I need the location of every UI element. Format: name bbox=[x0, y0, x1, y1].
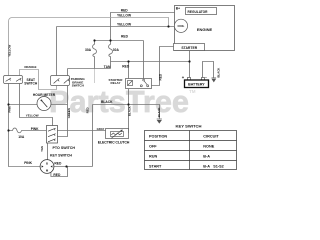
svg-text:ORANGE: ORANGE bbox=[24, 65, 36, 69]
wire PINK seat switch left pole down to key switch A bbox=[9, 84, 41, 167]
wire BLACK ground bus to ground symbol bbox=[93, 105, 160, 119]
svg-text:STARTER: STARTER bbox=[181, 46, 197, 50]
svg-text:START: START bbox=[149, 164, 162, 168]
svg-text:RED: RED bbox=[54, 162, 62, 166]
parking brake switch label bbox=[71, 77, 86, 87]
junction relay coil feed bbox=[127, 60, 129, 62]
svg-text:10A: 10A bbox=[18, 135, 25, 139]
junction yellow wires at coil bbox=[167, 25, 169, 27]
svg-text:POSITION: POSITION bbox=[149, 134, 167, 138]
ground chassis symbol at ground bus bbox=[157, 119, 162, 123]
svg-text:SWITCH: SWITCH bbox=[24, 82, 38, 86]
junction fuse F3 tap bbox=[7, 129, 9, 131]
wire hour meter taps bbox=[9, 104, 68, 106]
svg-text:RED: RED bbox=[121, 35, 129, 39]
svg-text:RUN: RUN bbox=[149, 154, 157, 158]
electric clutch L1 bbox=[106, 129, 129, 139]
svg-text:YELLOW: YELLOW bbox=[117, 22, 132, 26]
svg-text:TAN: TAN bbox=[40, 146, 44, 152]
svg-text:BLACK: BLACK bbox=[157, 108, 161, 118]
svg-text:OFF: OFF bbox=[149, 144, 157, 148]
starter relay K1 bbox=[126, 79, 152, 89]
svg-text:BATTERY: BATTERY bbox=[188, 83, 205, 87]
svg-text:30A: 30A bbox=[113, 48, 120, 52]
svg-text:YELLOW: YELLOW bbox=[26, 113, 39, 117]
svg-text:BLACK: BLACK bbox=[216, 68, 220, 78]
PTO switch S3 bbox=[47, 126, 58, 144]
wire starter relay coil feed drop bbox=[128, 62, 130, 79]
svg-text:PTO SWITCH: PTO SWITCH bbox=[53, 146, 76, 150]
wire RED key switch M loop bbox=[51, 167, 68, 177]
svg-text:B: B bbox=[46, 162, 48, 166]
wire RED key switch B to ground bus corner bbox=[54, 105, 93, 167]
svg-text:KEY SWITCH: KEY SWITCH bbox=[50, 154, 72, 158]
svg-text:RELAY: RELAY bbox=[111, 81, 121, 85]
junction fuse F1 top bbox=[93, 39, 95, 41]
svg-text:SWITCH: SWITCH bbox=[72, 83, 85, 87]
svg-text:RED: RED bbox=[122, 64, 130, 68]
wire RED fuse bus to starter relay contact bbox=[95, 41, 144, 79]
svg-text:B-A: B-A bbox=[203, 154, 210, 158]
svg-text:RED: RED bbox=[85, 107, 89, 113]
svg-text:TM: TM bbox=[189, 89, 196, 94]
wire RED fuse F2 to battery positive bbox=[111, 61, 190, 63]
svg-text:RED: RED bbox=[158, 73, 162, 80]
svg-text:TAN: TAN bbox=[104, 65, 111, 69]
fuse F3 10A with PINK wire to PTO switch bbox=[9, 128, 47, 133]
seat switch label bbox=[24, 78, 38, 86]
junction hour meter tap bbox=[7, 103, 9, 105]
svg-text:PINK: PINK bbox=[31, 127, 39, 131]
svg-text:RED: RED bbox=[53, 173, 61, 177]
wire GREEN parking brake switch to PTO switch bbox=[58, 86, 68, 137]
svg-text:NONE: NONE bbox=[203, 144, 214, 148]
wire RED from fuse bus up to engine B+ terminal bbox=[111, 13, 175, 41]
svg-text:CIRCUIT: CIRCUIT bbox=[203, 134, 219, 138]
wire BLACK electric clutch return drop bbox=[128, 105, 130, 134]
svg-text:ELECTRIC CLUTCH: ELECTRIC CLUTCH bbox=[98, 141, 130, 145]
wire BLACK battery negative to ground bbox=[203, 62, 214, 78]
wire YELLOW seat switch right pole to PTO switch top bbox=[20, 84, 53, 126]
svg-text:B+: B+ bbox=[176, 6, 180, 10]
svg-text:BLACK: BLACK bbox=[127, 106, 131, 116]
key switch S4 bbox=[40, 160, 54, 174]
watermark PartsTree logo bbox=[49, 84, 196, 119]
fuse F1 30A bbox=[93, 41, 97, 69]
svg-text:BLACK: BLACK bbox=[101, 100, 113, 104]
wire TAN PTO switch to key switch top bbox=[47, 143, 49, 160]
key switch table grid bbox=[145, 131, 237, 170]
seat switch S1 bbox=[4, 76, 23, 84]
ground chassis symbol at battery negative bbox=[212, 78, 217, 82]
engine outline box bbox=[175, 6, 235, 51]
svg-text:REGULATOR: REGULATOR bbox=[188, 10, 209, 14]
wire YELLOW lower run to engine coil bbox=[57, 26, 175, 28]
wire YELLOW left riser and top run to coil junction bbox=[9, 18, 169, 76]
regulator U1 bbox=[186, 8, 217, 15]
svg-text:30A: 30A bbox=[85, 48, 92, 52]
wire RED starter S terminal to relay contact bbox=[152, 47, 174, 86]
svg-text:PINK: PINK bbox=[7, 106, 11, 113]
svg-text:YELLOW: YELLOW bbox=[117, 14, 132, 18]
svg-text:COIL: COIL bbox=[177, 24, 184, 28]
battery BT1 bbox=[185, 78, 209, 88]
svg-text:PINK: PINK bbox=[24, 161, 32, 165]
wire ORANGE seat switch to parking brake switch bbox=[20, 70, 57, 90]
hour meter M2 bbox=[37, 97, 51, 111]
wire GRAY PTO switch to electric clutch bbox=[58, 130, 106, 132]
parking brake switch S2 bbox=[51, 76, 70, 86]
svg-text:GRAY: GRAY bbox=[97, 127, 105, 131]
ignition coil bbox=[174, 19, 187, 32]
svg-text:B-A S1-S2: B-A S1-S2 bbox=[203, 164, 223, 168]
wire fuse F1 faint tail bbox=[94, 69, 96, 84]
svg-text:GREEN: GREEN bbox=[67, 108, 71, 118]
junction battery positive node bbox=[188, 60, 190, 62]
starter relay label bbox=[109, 78, 124, 85]
wire YELLOW drop to parking brake switch left pole bbox=[56, 27, 58, 76]
junction ground bus at clutch drop bbox=[127, 103, 129, 105]
svg-text:KEY SWITCH: KEY SWITCH bbox=[176, 123, 202, 128]
junction fuse F2 top bbox=[109, 39, 111, 41]
fuse F2 30A bbox=[109, 41, 113, 69]
svg-text:ENGINE: ENGINE bbox=[197, 27, 213, 32]
starter motor M1 bbox=[174, 44, 205, 51]
svg-text:YELLOW: YELLOW bbox=[7, 44, 11, 56]
wire TAN to parking brake switch right pole bbox=[68, 69, 111, 76]
wire relay coil return to ground bus bbox=[128, 89, 130, 105]
wire starter motor drop to battery positive node bbox=[189, 51, 191, 78]
junction key switch B node bbox=[65, 165, 67, 167]
svg-text:RED: RED bbox=[121, 8, 129, 12]
